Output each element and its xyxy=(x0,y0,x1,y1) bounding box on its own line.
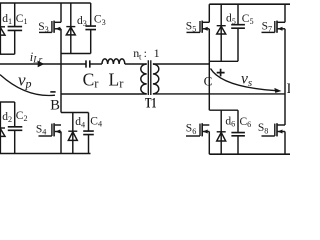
capacitor C4 xyxy=(83,113,94,154)
wire: S4 cell top bus xyxy=(61,112,89,114)
transistor Q S4 (MOSFET) xyxy=(39,123,62,153)
arrow ip on wire xyxy=(38,61,45,67)
diode d2 (cut at left edge) xyxy=(0,102,5,154)
svg-text:S7: S7 xyxy=(262,20,273,33)
curve: vs voltage arc with arrow xyxy=(211,69,279,91)
plus sign at node C xyxy=(217,69,225,77)
wire: secondary top lead to node C xyxy=(153,63,209,65)
svg-text:S4: S4 xyxy=(36,123,47,136)
svg-text:C4: C4 xyxy=(90,115,102,128)
wire: S6 cell top bus xyxy=(209,109,238,111)
wire: leg from S3 down through node B xyxy=(60,54,62,113)
svg-text:Cr: Cr xyxy=(83,70,100,91)
curve: vp voltage arc xyxy=(0,75,55,96)
wire: right bridge bottom rail xyxy=(209,153,290,155)
inductor Lr xyxy=(102,59,125,64)
wire: S2 cell top bus xyxy=(0,101,15,103)
svg-text:C5: C5 xyxy=(242,13,254,26)
svg-text:d6: d6 xyxy=(225,116,235,129)
svg-text:S8: S8 xyxy=(258,122,269,135)
svg-text:t: t xyxy=(139,51,142,61)
transistor Q S3 (MOSFET) xyxy=(39,3,61,54)
svg-text:d4: d4 xyxy=(75,116,85,129)
wire: S3 cell bottom bus xyxy=(61,53,91,55)
diode d1 (cut at left edge) xyxy=(0,3,5,54)
transformer T1 secondary winding xyxy=(153,64,159,94)
diode d6 xyxy=(217,110,226,154)
capacitor C3 xyxy=(85,3,96,54)
svg-text:C: C xyxy=(204,74,213,89)
capacitor Cr (series) xyxy=(86,60,90,67)
wire: leg node D xyxy=(284,29,286,125)
diode d5 xyxy=(217,4,226,61)
svg-text:S5: S5 xyxy=(186,20,197,33)
transistor Q S6 (MOSFET) xyxy=(186,123,209,154)
wire xyxy=(125,63,147,65)
svg-text:d1: d1 xyxy=(2,13,12,26)
minus sign at node B xyxy=(50,91,55,93)
svg-text:1: 1 xyxy=(154,46,160,60)
wire: primary bottom lead from node B to transformer xyxy=(61,93,147,95)
wire: right bridge top rail xyxy=(209,3,290,5)
svg-text:vp: vp xyxy=(18,70,32,90)
wire: left bridge bottom rail xyxy=(0,153,91,155)
wire: S5 cell bottom bus xyxy=(209,60,238,62)
svg-text:vs: vs xyxy=(241,71,252,89)
transistor Q S7 (MOSFET) xyxy=(262,4,286,33)
svg-text:C6: C6 xyxy=(240,116,252,129)
svg-text:d3: d3 xyxy=(77,15,87,28)
svg-text:d5: d5 xyxy=(226,13,236,26)
capacitor C5 xyxy=(231,4,245,61)
wire: left bridge top rail xyxy=(0,2,91,4)
transformer T1 core xyxy=(148,60,151,95)
svg-text:C2: C2 xyxy=(16,110,28,123)
wire: primary tank wire with ip xyxy=(0,63,86,65)
svg-text:C3: C3 xyxy=(94,14,106,27)
svg-text:d2: d2 xyxy=(2,111,12,124)
svg-text:S6: S6 xyxy=(186,123,197,136)
capacitor C6 xyxy=(231,110,245,154)
wire: leg node C xyxy=(208,61,210,110)
diode d3 xyxy=(66,3,75,54)
wire: S1 cell bottom bus xyxy=(0,53,15,55)
svg-text:Lr: Lr xyxy=(109,70,125,91)
transistor Q S8 (MOSFET) xyxy=(262,123,286,154)
svg-text:iLr: iLr xyxy=(30,50,43,66)
svg-text:D: D xyxy=(287,81,290,97)
wire: secondary bottom lead to node D xyxy=(153,93,285,95)
transformer T1 primary winding xyxy=(141,64,147,94)
svg-text::: : xyxy=(144,46,147,60)
capacitor C1 xyxy=(8,3,23,54)
svg-text:C1: C1 xyxy=(16,13,28,26)
transistor Q S5 (MOSFET) xyxy=(187,4,210,61)
svg-text:S3: S3 xyxy=(38,21,49,34)
wire xyxy=(90,63,102,65)
capacitor C2 xyxy=(8,102,22,154)
diode d4 xyxy=(68,113,77,154)
svg-text:B: B xyxy=(50,98,60,114)
svg-text:T1: T1 xyxy=(145,95,156,111)
